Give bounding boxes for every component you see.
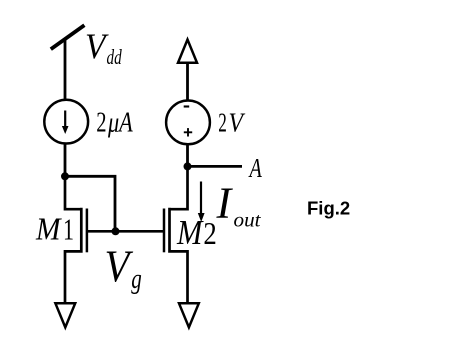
current source I1 <box>44 100 88 144</box>
wire node to M2 gate <box>115 230 163 233</box>
ground of M1 <box>55 303 75 327</box>
wire M1 gate to node <box>88 230 115 233</box>
Vdd supply slash <box>51 25 85 49</box>
wire drain node over to gate node <box>65 176 115 231</box>
wire node A stub <box>188 165 243 168</box>
current Iout arrow <box>200 182 202 216</box>
transistor M1 gate bar <box>86 209 89 253</box>
supply arrow up (2V source top) <box>178 40 197 63</box>
svg-text:I: I <box>216 178 234 227</box>
node drain of M1 (junction dot) <box>61 172 69 180</box>
transistor M2 gate bar <box>163 209 166 253</box>
svg-text:2: 2 <box>203 215 216 251</box>
svg-text:2: 2 <box>218 106 227 137</box>
svg-text:Fig.2: Fig.2 <box>307 198 350 219</box>
minus sign <box>184 105 190 107</box>
current source arrow <box>64 111 66 129</box>
svg-text:M: M <box>176 213 204 252</box>
wire arrow to 2V source <box>186 63 189 101</box>
wire Vdd to current source <box>64 39 67 102</box>
svg-text:V: V <box>105 240 134 291</box>
svg-text:g: g <box>131 264 142 295</box>
svg-text:μA: μA <box>107 107 133 139</box>
transistor M1 channel/source/drain <box>65 176 81 303</box>
node Vg gate junction dot <box>112 227 120 235</box>
svg-text:out: out <box>234 210 262 231</box>
node A junction dot <box>184 162 192 170</box>
svg-text:dd: dd <box>107 45 123 69</box>
svg-text:M: M <box>35 212 62 247</box>
voltage source V1 2V <box>166 101 210 145</box>
svg-text:2: 2 <box>96 107 106 139</box>
wire current source to drain node <box>64 144 67 177</box>
transistor M2 channel/source/drain <box>170 166 188 303</box>
plus sign <box>184 131 192 133</box>
svg-text:A: A <box>248 153 262 183</box>
svg-text:1: 1 <box>63 212 74 247</box>
svg-text:V: V <box>229 106 246 137</box>
ground of M2 <box>179 303 199 327</box>
wire 2V source to node A <box>186 145 189 167</box>
